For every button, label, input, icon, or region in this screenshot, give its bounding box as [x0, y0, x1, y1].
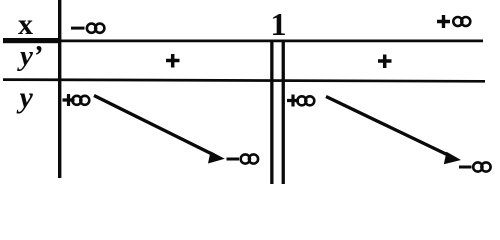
decreasing arrow, first branch: [94, 96, 225, 164]
svg-text:1: 1: [271, 6, 287, 42]
plus-infinity at top of first branch: [63, 94, 90, 106]
svg-text:y’: y’: [17, 40, 43, 72]
thick scanned segment of rule under x: [3, 38, 60, 43]
horizontal rule under x row: [3, 40, 483, 43]
plus-infinity at top of second branch: [287, 95, 314, 107]
left vertical rule of table: [58, 0, 61, 178]
plus-infinity in x row: [437, 15, 470, 28]
plus sign, left interval: [166, 54, 180, 68]
plus sign, right interval: [378, 55, 392, 69]
horizontal rule under y' row: [3, 78, 485, 82]
minus-infinity at end of first branch: [227, 154, 259, 163]
decreasing arrow, second branch: [326, 97, 461, 165]
double discontinuity bar at x=1, left stroke: [270, 40, 273, 184]
svg-text:x: x: [18, 8, 33, 41]
double discontinuity bar at x=1, right stroke: [282, 40, 285, 184]
minus-infinity in x row: [71, 24, 104, 33]
minus-infinity at end of second branch: [459, 162, 491, 171]
svg-text:y: y: [17, 81, 34, 114]
